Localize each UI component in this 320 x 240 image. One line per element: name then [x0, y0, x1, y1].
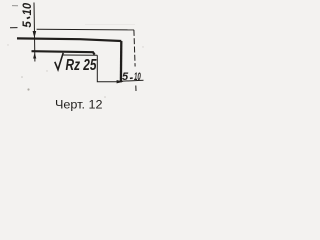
- svg-text:10: 10: [22, 2, 34, 15]
- svg-text:5: 5: [22, 21, 34, 28]
- svg-text:Черт. 12: Черт. 12: [55, 99, 103, 111]
- svg-text:10: 10: [134, 71, 141, 83]
- svg-text:5: 5: [122, 71, 129, 83]
- svg-text:Rz 25: Rz 25: [66, 57, 98, 74]
